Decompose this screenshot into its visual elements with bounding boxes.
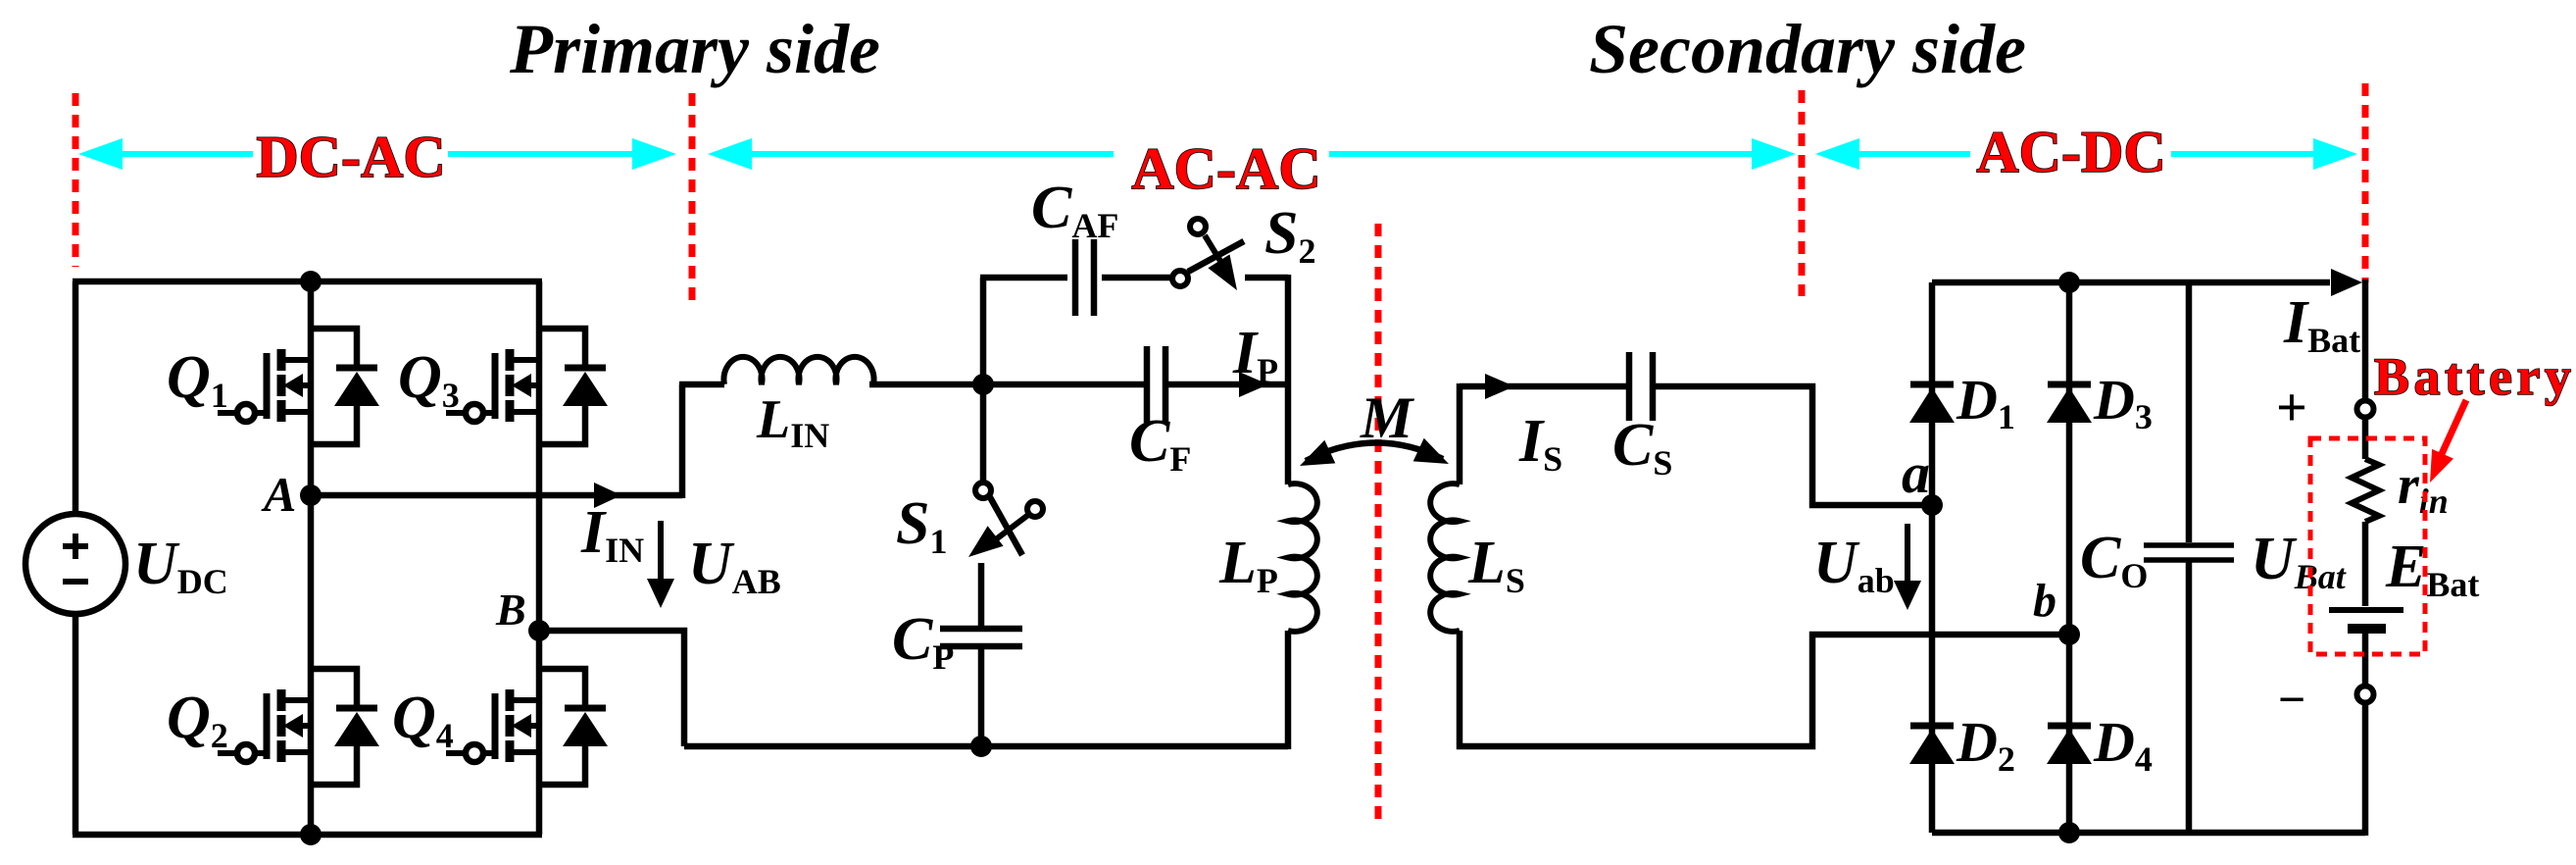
label I_P [1232, 320, 1278, 390]
svg-text:+: + [2276, 378, 2307, 438]
label D4 [2093, 710, 2153, 779]
svg-text:B: B [495, 585, 526, 635]
svg-text:Secondary side: Secondary side [1589, 10, 2026, 88]
label minus [2278, 672, 2306, 727]
wire secondary top right [1653, 386, 1932, 505]
terminal battery positive [2357, 401, 2374, 418]
wire terminal to r_in [2362, 419, 2369, 459]
battery outline box [2310, 438, 2425, 654]
label L_P [1218, 530, 1278, 600]
source U_DC [25, 514, 125, 614]
node a [1921, 494, 1943, 516]
wire secondary left leg upper [1457, 383, 1463, 484]
capacitor C_O [2144, 545, 2234, 560]
wire node B to bottom rail [539, 631, 684, 746]
wire E_Bat to terminal [2362, 632, 2369, 685]
svg-text:CS: CS [1612, 412, 1672, 483]
wire secondary top left [1460, 374, 1626, 399]
label Q2 [167, 685, 228, 755]
label Q1 [167, 344, 228, 415]
diode D3 [2047, 384, 2092, 423]
label DC-AC [256, 125, 445, 189]
transistor Q4 [446, 669, 608, 785]
wire tank node up [980, 278, 987, 382]
inductor L_IN [724, 357, 874, 384]
label E_Bat [2385, 534, 2479, 604]
svg-text:b: b [2033, 575, 2056, 627]
wire C_O leg upper [2186, 282, 2193, 542]
svg-text:A: A [261, 467, 296, 522]
label plus [2276, 378, 2307, 438]
coupling arrow M [1300, 438, 1449, 466]
boundary dashed line 1 (far left) [73, 93, 79, 267]
label D2 [1956, 710, 2015, 779]
svg-text:D4: D4 [2093, 710, 2153, 779]
wire battery branch lower [2362, 704, 2369, 836]
span arrow AC-DC [1815, 138, 2357, 170]
arrow U_ab [1894, 524, 1921, 610]
svg-text:CO: CO [2080, 525, 2148, 595]
svg-text:AC-DC: AC-DC [1976, 120, 2165, 184]
label I_Bat [2283, 289, 2360, 360]
svg-text:Q4: Q4 [392, 685, 454, 755]
wire C_P to bottom rail [978, 646, 985, 746]
title Secondary side [1589, 10, 2026, 88]
svg-text:S1: S1 [896, 490, 947, 561]
junction rectifier bottom leg2 [2058, 822, 2080, 843]
svg-text:CF: CF [1129, 408, 1191, 479]
label C_F [1129, 408, 1191, 479]
wire bottom rail (primary tank) [684, 743, 1288, 750]
svg-text:UDC: UDC [133, 531, 228, 601]
title Primary side [509, 10, 880, 88]
svg-text:AC-AC: AC-AC [1131, 136, 1320, 201]
label I_IN [580, 499, 644, 570]
boundary dashed line 2 (DC-AC / AC-AC) [689, 93, 696, 307]
label L_IN [756, 389, 829, 455]
svg-text:LP: LP [1218, 530, 1278, 600]
capacitor C_AF [1075, 239, 1094, 316]
wire right leg lower [1285, 631, 1292, 749]
label b [2033, 575, 2056, 627]
svg-text:IP: IP [1232, 320, 1278, 390]
label I_S [1518, 408, 1562, 479]
wire riser to L_IN [679, 384, 686, 498]
wire C_AF to S2 [1102, 275, 1170, 281]
svg-text:a: a [1902, 441, 1930, 505]
svg-text:Q1: Q1 [167, 344, 228, 415]
transistor Q2 [218, 669, 379, 785]
wire inverter leg 2 (Q3/Q4) [536, 281, 543, 835]
svg-text:Battery: Battery [2374, 347, 2575, 406]
label S2 [1264, 200, 1315, 271]
wire rectifier top bus [1932, 269, 2362, 296]
label C_AF [1031, 175, 1118, 245]
svg-text:Uab: Uab [1813, 530, 1895, 600]
transistor Q3 [446, 329, 608, 444]
junction bottom bus leg1 [300, 824, 322, 845]
wire C_F to right leg [1168, 372, 1288, 397]
wire S1 to C_P [978, 563, 985, 629]
svg-text:S2: S2 [1264, 200, 1315, 271]
wire S2 to right corner [1245, 275, 1288, 281]
wire tank node to C_F [983, 382, 1144, 388]
boundary dashed line 3 (air gap, center) [1375, 224, 1382, 822]
wire secondary left leg lower [1457, 631, 1463, 749]
svg-text:IS: IS [1518, 408, 1562, 479]
svg-text:DC-AC: DC-AC [256, 125, 445, 189]
svg-text:UBat: UBat [2251, 526, 2347, 596]
label A [261, 467, 296, 522]
inductor L_S [1430, 483, 1460, 632]
node A [300, 484, 322, 506]
capacitor C_F [1147, 346, 1165, 423]
capacitor C_P [940, 629, 1022, 646]
wire rectifier leg 1 (D1/D2) [1929, 282, 1936, 833]
label r_in [2398, 455, 2449, 521]
svg-text:M: M [1360, 385, 1415, 450]
boundary dashed line 4 (AC-AC / AC-DC) [1799, 90, 1806, 296]
diode D2 [1909, 726, 1955, 764]
svg-text:IBat: IBat [2283, 289, 2360, 360]
span arrow DC-AC [78, 138, 676, 170]
wire left vertical (source to buses) [73, 281, 79, 835]
junction C_P bottom [970, 736, 992, 757]
terminal battery negative [2357, 687, 2374, 703]
label L_S [1467, 530, 1525, 600]
label U_ab [1813, 530, 1895, 600]
wire to C_AF [980, 275, 1067, 281]
wire top bus (inverter) [73, 279, 542, 285]
label U_DC [133, 531, 228, 601]
label AC-AC [1131, 136, 1320, 201]
svg-text:Primary side: Primary side [509, 10, 880, 88]
svg-text:Q2: Q2 [167, 685, 228, 755]
resistor r_in [2352, 459, 2379, 522]
inductor L_P [1288, 483, 1317, 632]
junction rectifier top leg2 [2058, 272, 2080, 293]
switch S1 [968, 483, 1043, 557]
wire rectifier bottom bus [1932, 830, 2365, 837]
boundary dashed line 5 (far right) [2362, 83, 2369, 282]
label a [1902, 441, 1930, 505]
label C_O [2080, 525, 2148, 595]
svg-text:CAF: CAF [1031, 175, 1118, 245]
node tank input [972, 374, 994, 395]
label Q3 [398, 344, 460, 415]
svg-text:LS: LS [1467, 530, 1525, 600]
node b [2058, 624, 2080, 645]
label Q4 [392, 685, 454, 755]
label D1 [1956, 368, 2015, 436]
svg-text:D3: D3 [2093, 368, 2153, 436]
label M [1360, 385, 1415, 450]
svg-text:LIN: LIN [756, 389, 829, 455]
label U_Bat [2251, 526, 2347, 596]
transistor Q1 [218, 329, 379, 444]
svg-text:Q3: Q3 [398, 344, 460, 415]
wire rectifier leg 2 (D3/D4) [2066, 282, 2073, 833]
diode D1 [1909, 384, 1955, 423]
svg-text:D2: D2 [1956, 710, 2015, 779]
wire right leg upper (S2 corner down) [1285, 275, 1292, 484]
diode D4 [2047, 726, 2092, 764]
junction top bus leg1 [300, 271, 322, 292]
wire L_IN left lead [679, 382, 724, 388]
svg-text:D1: D1 [1956, 368, 2015, 436]
label AC-DC [1976, 120, 2165, 184]
wire inverter leg 1 (Q1/Q2) [308, 281, 315, 835]
switch S2 [1172, 219, 1244, 290]
label S1 [896, 490, 947, 561]
wire secondary bottom [1457, 635, 2069, 746]
wire bottom bus (inverter) [73, 832, 542, 839]
wire node A to L_IN riser [311, 483, 682, 508]
label D3 [2093, 368, 2153, 436]
svg-text:−: − [2278, 672, 2306, 727]
label U_AB [688, 531, 781, 601]
label B [495, 585, 526, 635]
label C_P [892, 606, 954, 677]
svg-text:UAB: UAB [688, 531, 781, 601]
capacitor C_S [1629, 352, 1653, 421]
battery E_Bat [2329, 610, 2403, 629]
label C_S [1612, 412, 1672, 483]
wire battery branch upper [2362, 280, 2369, 399]
svg-text:IIN: IIN [580, 499, 644, 570]
battery pointer arrow [2430, 400, 2466, 483]
label Battery [2374, 347, 2575, 406]
svg-text:EBat: EBat [2385, 534, 2479, 604]
span arrow AC-AC [708, 138, 1796, 170]
wire r_in to E_Bat [2362, 522, 2369, 606]
arrow U_AB [647, 521, 674, 608]
wire L_IN to tank node [869, 382, 983, 388]
wire tank node down to S1 [980, 384, 987, 481]
node B [528, 620, 550, 641]
wire C_O leg lower [2186, 560, 2193, 833]
svg-text:CP: CP [892, 606, 954, 677]
